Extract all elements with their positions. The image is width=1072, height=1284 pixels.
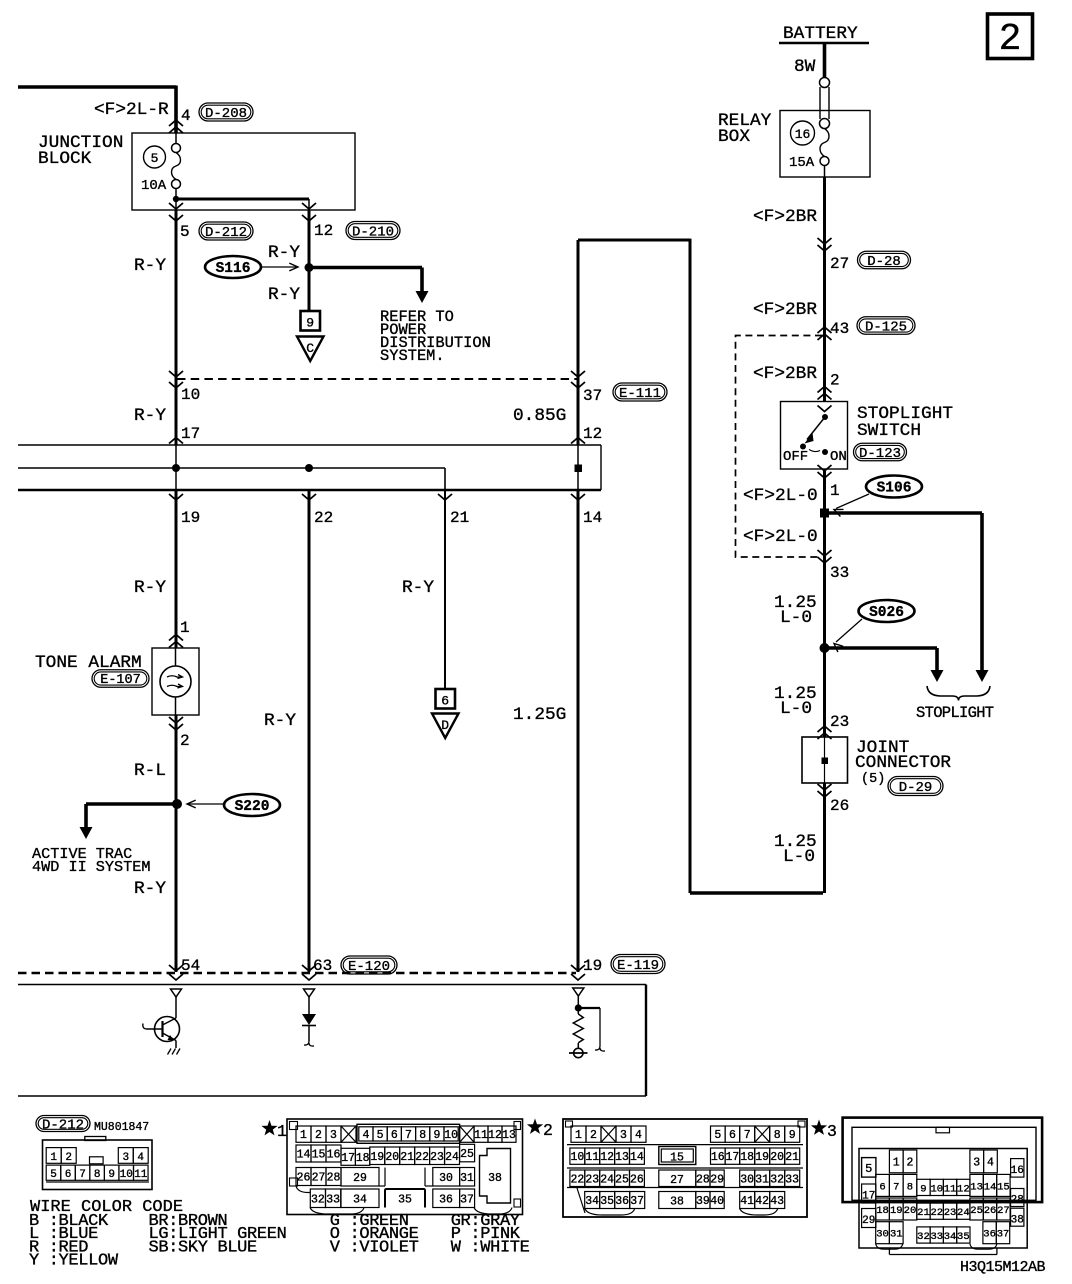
svg-text:26: 26 bbox=[630, 1173, 644, 1186]
svg-text:31: 31 bbox=[890, 1229, 903, 1241]
svg-text:9: 9 bbox=[306, 316, 314, 331]
svg-text:21: 21 bbox=[917, 1207, 930, 1219]
svg-text:10: 10 bbox=[570, 1151, 584, 1164]
connector D-125 pin 43 bbox=[818, 317, 916, 340]
svg-text:Y :YELLOW: Y :YELLOW bbox=[29, 1252, 119, 1271]
svg-text:<F>2BR: <F>2BR bbox=[753, 300, 817, 320]
connector D-208 pin 4 bbox=[169, 103, 253, 133]
svg-text:16: 16 bbox=[795, 127, 811, 142]
svg-text:21: 21 bbox=[450, 509, 469, 527]
svg-text:ON: ON bbox=[830, 449, 847, 465]
svg-text:8: 8 bbox=[94, 1169, 101, 1181]
svg-text:2: 2 bbox=[590, 1129, 597, 1142]
svg-text:<F>2L-0: <F>2L-0 bbox=[743, 486, 818, 506]
wire branch to power distribution bbox=[309, 268, 429, 304]
svg-text:1: 1 bbox=[277, 1122, 287, 1141]
svg-text:22: 22 bbox=[930, 1207, 943, 1219]
svg-text:BOX: BOX bbox=[718, 127, 750, 147]
svg-text:L-0: L-0 bbox=[780, 699, 812, 719]
splice S220 bbox=[187, 794, 280, 816]
svg-text:1: 1 bbox=[893, 1156, 900, 1169]
svg-text:17: 17 bbox=[341, 1152, 355, 1165]
terminal 9 bbox=[301, 311, 321, 331]
ground triangle C bbox=[297, 337, 324, 362]
svg-text:3: 3 bbox=[973, 1156, 980, 1169]
svg-text:24: 24 bbox=[445, 1151, 459, 1164]
svg-text:14: 14 bbox=[583, 509, 602, 527]
wire color code legend bbox=[29, 1198, 530, 1271]
svg-text:12: 12 bbox=[957, 1183, 970, 1195]
svg-text:35: 35 bbox=[600, 1195, 614, 1208]
svg-text:15A: 15A bbox=[789, 155, 815, 171]
svg-text:31: 31 bbox=[755, 1173, 769, 1186]
svg-text:38: 38 bbox=[1011, 1215, 1024, 1227]
svg-text:29: 29 bbox=[710, 1173, 724, 1186]
svg-text:27: 27 bbox=[997, 1205, 1010, 1217]
svg-text:1: 1 bbox=[50, 1152, 57, 1164]
label (F)2BR 3 bbox=[753, 364, 840, 400]
node S106 junction bbox=[821, 509, 829, 517]
svg-text:2: 2 bbox=[180, 732, 190, 750]
svg-text:37: 37 bbox=[460, 1194, 474, 1207]
svg-text:8: 8 bbox=[907, 1181, 913, 1193]
svg-text:16: 16 bbox=[327, 1149, 341, 1162]
node fuse output junction bbox=[173, 196, 179, 202]
svg-text:20: 20 bbox=[385, 1151, 399, 1164]
svg-text:26: 26 bbox=[984, 1205, 997, 1217]
svg-text:C: C bbox=[306, 341, 314, 356]
stoplight loads label bbox=[916, 686, 994, 722]
svg-text:36: 36 bbox=[983, 1229, 996, 1241]
wire through bus left bbox=[175, 445, 177, 490]
battery bbox=[779, 24, 869, 44]
svg-text:2: 2 bbox=[315, 1129, 322, 1142]
svg-text:37: 37 bbox=[583, 387, 602, 405]
svg-text:1: 1 bbox=[830, 482, 840, 500]
svg-text:23: 23 bbox=[585, 1173, 599, 1186]
svg-text:D: D bbox=[441, 718, 449, 733]
svg-text:19: 19 bbox=[181, 509, 200, 527]
bus connector middle wire bbox=[18, 468, 445, 490]
svg-text:R-Y: R-Y bbox=[268, 285, 300, 305]
svg-text:33: 33 bbox=[930, 1231, 943, 1243]
relay box bbox=[718, 111, 870, 178]
svg-text:22: 22 bbox=[415, 1151, 429, 1164]
svg-text:10: 10 bbox=[181, 386, 200, 404]
svg-text:14: 14 bbox=[297, 1149, 311, 1162]
pin 63 E-120 boundary bbox=[302, 956, 397, 980]
svg-text:19: 19 bbox=[890, 1205, 903, 1217]
svg-text:5: 5 bbox=[865, 1162, 872, 1176]
svg-text:2: 2 bbox=[906, 1156, 913, 1169]
svg-text:6: 6 bbox=[391, 1129, 398, 1142]
svg-text:10: 10 bbox=[120, 1169, 133, 1181]
node S026 junction bbox=[820, 643, 830, 653]
svg-text:20: 20 bbox=[904, 1205, 917, 1217]
svg-text:34: 34 bbox=[944, 1231, 957, 1243]
svg-text:S106: S106 bbox=[877, 481, 912, 497]
svg-text:28: 28 bbox=[696, 1173, 710, 1186]
svg-text:BATTERY: BATTERY bbox=[783, 24, 858, 44]
body module box bbox=[18, 985, 646, 1097]
wire link top horizontal bbox=[578, 239, 690, 242]
svg-text:5: 5 bbox=[50, 1169, 57, 1181]
svg-text:19: 19 bbox=[583, 957, 602, 975]
dashed box around stoplight switch bbox=[736, 336, 823, 558]
svg-text:5: 5 bbox=[151, 151, 159, 166]
svg-text:25: 25 bbox=[460, 1148, 474, 1161]
svg-text:R-Y: R-Y bbox=[402, 578, 434, 598]
svg-text:12: 12 bbox=[488, 1129, 502, 1142]
svg-text:13: 13 bbox=[615, 1151, 629, 1164]
svg-text:8W: 8W bbox=[794, 57, 816, 77]
lower harness boundary dashed bbox=[18, 972, 576, 975]
wire return bottom horizontal bbox=[690, 891, 823, 895]
svg-text:12: 12 bbox=[583, 425, 602, 443]
svg-text:32: 32 bbox=[770, 1173, 784, 1186]
stoplight switch D-123 bbox=[781, 402, 954, 470]
svg-text:4: 4 bbox=[181, 107, 191, 125]
svg-text:BLOCK: BLOCK bbox=[38, 149, 92, 169]
svg-text:12: 12 bbox=[600, 1151, 614, 1164]
svg-text:19: 19 bbox=[755, 1151, 769, 1164]
svg-text:5: 5 bbox=[180, 223, 190, 241]
node S220 junction bbox=[172, 799, 182, 809]
svg-text:3: 3 bbox=[620, 1129, 627, 1142]
connector D-212 face view bbox=[36, 1116, 152, 1190]
svg-text:35: 35 bbox=[957, 1231, 970, 1243]
svg-text:L-0: L-0 bbox=[780, 608, 812, 628]
svg-text:9: 9 bbox=[433, 1129, 440, 1142]
svg-text:25: 25 bbox=[615, 1173, 629, 1186]
svg-text:2: 2 bbox=[543, 1121, 553, 1140]
svg-text:4WD II SYSTEM: 4WD II SYSTEM bbox=[32, 858, 150, 876]
svg-text:D-28: D-28 bbox=[867, 254, 901, 270]
wire R-Y pin12 to splice bbox=[268, 210, 309, 311]
svg-text:R-Y: R-Y bbox=[264, 711, 296, 731]
svg-text:28: 28 bbox=[1011, 1195, 1024, 1207]
svg-text:<F>2L-R: <F>2L-R bbox=[94, 100, 169, 120]
svg-text:27: 27 bbox=[670, 1174, 684, 1187]
wire R-Y pin21 to terminal bbox=[402, 490, 445, 689]
svg-text:R-Y: R-Y bbox=[268, 243, 300, 263]
svg-text:H3Q15M12AB: H3Q15M12AB bbox=[960, 1259, 1046, 1276]
wire R-Y to tone alarm bbox=[134, 490, 190, 648]
boundary crossing pin 33 bbox=[818, 550, 850, 582]
svg-text:R-L: R-L bbox=[134, 761, 166, 781]
svg-text:32: 32 bbox=[311, 1193, 325, 1206]
fuse 5 10A in junction block bbox=[141, 133, 181, 210]
svg-text:16: 16 bbox=[1011, 1165, 1024, 1177]
connector D-212 pin 5 bbox=[180, 222, 253, 241]
svg-text:16: 16 bbox=[711, 1151, 725, 1164]
svg-text:36: 36 bbox=[615, 1195, 629, 1208]
pin 54 boundary bbox=[169, 957, 200, 980]
svg-text:D-123: D-123 bbox=[859, 446, 901, 462]
connector star1 face view bbox=[261, 1119, 522, 1215]
svg-text:R-Y: R-Y bbox=[134, 879, 166, 899]
svg-text:7: 7 bbox=[79, 1169, 86, 1181]
wire junction block output left bbox=[169, 203, 183, 221]
svg-text:6: 6 bbox=[441, 694, 449, 709]
terminal square on G wire bbox=[575, 465, 582, 472]
svg-text:7: 7 bbox=[405, 1129, 412, 1142]
svg-text:2: 2 bbox=[830, 372, 840, 390]
svg-text:33: 33 bbox=[326, 1193, 340, 1206]
svg-text:6: 6 bbox=[729, 1129, 736, 1142]
svg-text:23: 23 bbox=[430, 1151, 444, 1164]
svg-text:19: 19 bbox=[370, 1151, 384, 1164]
boundary crossing pin 37 E-111 bbox=[571, 371, 667, 405]
pin 14 bbox=[571, 494, 602, 527]
svg-text:17: 17 bbox=[725, 1151, 739, 1164]
node S116 junction bbox=[305, 263, 314, 272]
wire R-L below tone alarm bbox=[134, 715, 190, 972]
svg-text:15: 15 bbox=[312, 1149, 326, 1162]
svg-text:(5): (5) bbox=[861, 772, 885, 787]
joint connector pin 23 bbox=[818, 713, 850, 739]
svg-text:SYSTEM.: SYSTEM. bbox=[380, 347, 445, 365]
svg-text:D-29: D-29 bbox=[899, 780, 933, 796]
svg-text:23: 23 bbox=[830, 713, 849, 731]
svg-text:34: 34 bbox=[585, 1195, 599, 1208]
svg-text:36: 36 bbox=[439, 1194, 453, 1207]
svg-text:32: 32 bbox=[917, 1231, 930, 1243]
svg-text:3: 3 bbox=[122, 1152, 129, 1164]
svg-text:D-208: D-208 bbox=[205, 106, 247, 122]
svg-text:28: 28 bbox=[327, 1172, 341, 1185]
svg-text:E-119: E-119 bbox=[617, 958, 659, 974]
svg-text:<F>2BR: <F>2BR bbox=[753, 207, 817, 227]
splice S026 bbox=[834, 600, 915, 652]
pin 19 E-119 boundary bbox=[571, 955, 665, 981]
connector D-210 pin 12 bbox=[314, 222, 400, 241]
bus connector right edge bbox=[600, 445, 602, 490]
svg-text:13: 13 bbox=[970, 1181, 983, 1193]
fusible link 8W bbox=[794, 57, 830, 129]
svg-text:MU801847: MU801847 bbox=[94, 1121, 149, 1134]
wire (F)2L-O switch output bbox=[743, 465, 840, 737]
bus connector top line bbox=[18, 444, 601, 446]
splice S116 bbox=[205, 256, 298, 278]
splice S106 bbox=[834, 476, 922, 517]
svg-text:24: 24 bbox=[600, 1173, 614, 1186]
svg-text:8: 8 bbox=[774, 1129, 781, 1142]
svg-text:14: 14 bbox=[984, 1181, 997, 1193]
svg-text:20: 20 bbox=[770, 1151, 784, 1164]
harness boundary dashed bbox=[177, 378, 578, 380]
svg-text:9: 9 bbox=[108, 1169, 115, 1181]
svg-text:3: 3 bbox=[827, 1122, 837, 1141]
connector D-28 pin 27 bbox=[818, 238, 911, 273]
svg-text:38: 38 bbox=[670, 1196, 684, 1209]
wire battery feed bbox=[823, 43, 827, 78]
svg-text:<F>2L-0: <F>2L-0 bbox=[743, 527, 818, 547]
svg-text:R-Y: R-Y bbox=[134, 578, 166, 598]
svg-text:R-Y: R-Y bbox=[134, 406, 166, 426]
svg-text:5: 5 bbox=[714, 1129, 721, 1142]
tone alarm E-107 bbox=[35, 648, 199, 715]
svg-text:26: 26 bbox=[297, 1172, 311, 1185]
svg-text:E-107: E-107 bbox=[100, 673, 141, 688]
svg-text:L-0: L-0 bbox=[783, 847, 815, 867]
svg-text:S116: S116 bbox=[216, 261, 251, 277]
svg-text:S220: S220 bbox=[235, 799, 270, 815]
svg-text:25: 25 bbox=[970, 1205, 983, 1217]
svg-text:33: 33 bbox=[785, 1173, 799, 1186]
transistor in module bbox=[143, 989, 182, 1055]
note refer to power distribution system bbox=[380, 308, 491, 365]
svg-text:37: 37 bbox=[630, 1195, 644, 1208]
svg-text:3: 3 bbox=[330, 1129, 337, 1142]
svg-text:18: 18 bbox=[356, 1152, 370, 1165]
svg-text:41: 41 bbox=[740, 1195, 754, 1208]
svg-text:15: 15 bbox=[670, 1152, 684, 1165]
svg-text:40: 40 bbox=[710, 1195, 724, 1208]
svg-text:4: 4 bbox=[987, 1156, 994, 1169]
svg-text:24: 24 bbox=[957, 1207, 970, 1219]
svg-text:39: 39 bbox=[696, 1195, 710, 1208]
svg-text:D-210: D-210 bbox=[352, 224, 394, 240]
wire R-Y pin22 down bbox=[264, 490, 309, 972]
svg-text:11: 11 bbox=[474, 1129, 488, 1142]
svg-text:15: 15 bbox=[997, 1181, 1010, 1193]
wire 1.25G ground feed bbox=[513, 240, 578, 972]
svg-text:R-Y: R-Y bbox=[134, 256, 166, 276]
svg-text:CONNECTOR: CONNECTOR bbox=[855, 753, 951, 773]
wire through bus G bbox=[577, 445, 579, 490]
ground triangle D bbox=[432, 714, 459, 739]
svg-text:13: 13 bbox=[502, 1129, 516, 1142]
svg-text:9: 9 bbox=[789, 1129, 796, 1142]
svg-text:27: 27 bbox=[312, 1172, 326, 1185]
svg-text:22: 22 bbox=[314, 509, 333, 527]
svg-text:9: 9 bbox=[920, 1183, 926, 1195]
label 1.25 L-O 2 bbox=[774, 684, 817, 719]
svg-text:30: 30 bbox=[439, 1172, 453, 1185]
svg-text:D-125: D-125 bbox=[865, 319, 907, 335]
svg-text:10: 10 bbox=[930, 1183, 943, 1195]
svg-text:7: 7 bbox=[893, 1181, 899, 1193]
fuse 16 15A in relay box bbox=[789, 121, 829, 177]
svg-text:SWITCH: SWITCH bbox=[857, 421, 921, 441]
svg-text:18: 18 bbox=[740, 1151, 754, 1164]
svg-text:17: 17 bbox=[862, 1191, 875, 1203]
svg-text:6: 6 bbox=[879, 1181, 885, 1193]
svg-text:OFF: OFF bbox=[783, 449, 808, 465]
D-212 pins bbox=[46, 1148, 148, 1181]
svg-text:E-111: E-111 bbox=[619, 386, 661, 402]
svg-text:27: 27 bbox=[830, 255, 849, 273]
boundary crossing pin 10 bbox=[169, 371, 200, 404]
svg-text:0.85G: 0.85G bbox=[513, 406, 566, 426]
svg-text:30: 30 bbox=[740, 1173, 754, 1186]
svg-text:30: 30 bbox=[876, 1229, 889, 1241]
svg-text:42: 42 bbox=[755, 1195, 769, 1208]
svg-text:2: 2 bbox=[999, 18, 1022, 61]
svg-text:11: 11 bbox=[134, 1169, 148, 1181]
svg-text:1: 1 bbox=[180, 619, 190, 637]
svg-text:38: 38 bbox=[488, 1172, 502, 1185]
wire R-Y left main bbox=[134, 210, 176, 445]
svg-text:17: 17 bbox=[181, 425, 200, 443]
svg-text:S026: S026 bbox=[869, 605, 904, 621]
svg-text:4: 4 bbox=[137, 1152, 144, 1164]
svg-text:21: 21 bbox=[400, 1151, 414, 1164]
node bus junction left bbox=[172, 464, 180, 472]
svg-text:1: 1 bbox=[575, 1129, 582, 1142]
label 1.25 L-O 3 bbox=[774, 832, 817, 867]
wire branch to pin 12 bbox=[176, 198, 309, 201]
svg-text:22: 22 bbox=[570, 1173, 584, 1186]
svg-text:D-212: D-212 bbox=[42, 1117, 84, 1133]
svg-text:18: 18 bbox=[876, 1205, 889, 1217]
node bus junction middle bbox=[305, 464, 313, 472]
svg-text:11: 11 bbox=[944, 1183, 957, 1195]
wire (F)2BR relay to switch bbox=[753, 177, 825, 402]
resistor to ground in module bbox=[569, 988, 605, 1058]
svg-text:5: 5 bbox=[377, 1129, 384, 1142]
svg-text:<F>2BR: <F>2BR bbox=[753, 364, 817, 384]
svg-text:1.25G: 1.25G bbox=[513, 705, 566, 725]
svg-text:43: 43 bbox=[770, 1195, 784, 1208]
svg-text:35: 35 bbox=[398, 1194, 412, 1207]
terminal 6 bbox=[436, 689, 456, 709]
wire joint connector down bbox=[823, 783, 826, 893]
svg-text:14: 14 bbox=[630, 1151, 644, 1164]
pin 19 bbox=[169, 494, 200, 527]
svg-text:1: 1 bbox=[300, 1129, 307, 1142]
wire return vertical bbox=[689, 239, 692, 893]
svg-text:37: 37 bbox=[997, 1229, 1010, 1241]
pin 12 into bus bbox=[571, 425, 602, 444]
svg-text:10A: 10A bbox=[141, 178, 167, 194]
diode in module bbox=[302, 989, 316, 1046]
wire stoplight branch right bbox=[824, 513, 989, 682]
label 1.25 L-O bbox=[774, 593, 817, 628]
svg-text:21: 21 bbox=[785, 1151, 799, 1164]
svg-text:29: 29 bbox=[862, 1215, 875, 1227]
junction block bbox=[38, 133, 355, 210]
joint connector (5) D-29 bbox=[802, 737, 951, 796]
page number 2 box bbox=[988, 14, 1033, 61]
svg-text:2: 2 bbox=[65, 1152, 72, 1164]
svg-text:STOPLIGHT: STOPLIGHT bbox=[916, 704, 994, 722]
wire (F)2L-R feed from top-left bbox=[18, 86, 176, 134]
svg-text:33: 33 bbox=[830, 564, 849, 582]
svg-text:11: 11 bbox=[585, 1151, 599, 1164]
svg-text:SB:SKY BLUE: SB:SKY BLUE bbox=[149, 1238, 258, 1257]
svg-text:23: 23 bbox=[944, 1207, 957, 1219]
pin 17 into bus bbox=[169, 425, 200, 444]
svg-text:31: 31 bbox=[460, 1172, 474, 1185]
pin 21 bbox=[438, 494, 469, 527]
pin 22 bbox=[302, 494, 333, 527]
svg-text:8: 8 bbox=[419, 1129, 426, 1142]
svg-text:29: 29 bbox=[353, 1172, 367, 1185]
svg-text:34: 34 bbox=[353, 1194, 367, 1207]
connector star3 face view bbox=[811, 1118, 1042, 1255]
svg-text:V :VIOLET: V :VIOLET bbox=[330, 1238, 419, 1257]
bus connector bottom line bbox=[18, 489, 601, 492]
connector star2 face view bbox=[527, 1119, 807, 1218]
wire junction block output right bbox=[302, 199, 316, 221]
svg-text:4: 4 bbox=[635, 1129, 642, 1142]
svg-text:43: 43 bbox=[830, 320, 849, 338]
svg-text:7: 7 bbox=[744, 1129, 751, 1142]
svg-text:D-212: D-212 bbox=[205, 225, 247, 241]
wire branch to active trac system bbox=[32, 804, 177, 876]
